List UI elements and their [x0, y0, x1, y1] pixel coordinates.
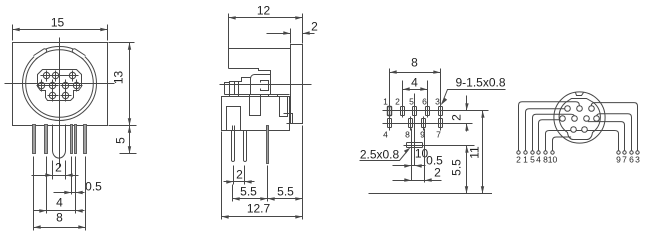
dim 0.5 legs [54, 157, 103, 195]
pad 10 [407, 143, 423, 148]
body top edge [229, 49, 291, 69]
wire terminal 8 and terminal 9 bus [546, 131, 619, 151]
svg-text:1: 1 [383, 97, 388, 107]
svg-text:13: 13 [112, 71, 126, 85]
shield outline back [559, 99, 600, 140]
shield tab U [53, 125, 66, 159]
pin 2 front [50, 71, 62, 82]
outer shell circle [23, 47, 97, 121]
pad 4 [388, 119, 392, 128]
dim 2 pads horiz [393, 129, 442, 183]
pin 9 front [61, 90, 72, 102]
leader 9-1.5x0.8 [442, 76, 506, 105]
svg-text:2: 2 [434, 166, 441, 180]
svg-text:2.5x0.8: 2.5x0.8 [360, 148, 400, 162]
svg-text:3: 3 [435, 97, 440, 107]
wire terminal 5 [533, 114, 575, 150]
pin b6 [584, 116, 590, 122]
key notch top [576, 93, 584, 96]
base slot 2 [280, 97, 288, 117]
svg-text:5: 5 [114, 137, 128, 144]
dim 12.7 [222, 132, 303, 220]
dim 0.5 pads [393, 129, 444, 181]
pad 9 [422, 119, 426, 128]
base box [222, 97, 290, 131]
terminal circle 10 [551, 151, 554, 154]
leg A [232, 131, 235, 162]
solder leg 1 [33, 125, 36, 154]
svg-text:2: 2 [450, 114, 464, 121]
svg-text:12: 12 [257, 4, 271, 18]
wire terminal 10 [553, 137, 572, 151]
svg-text:5.5: 5.5 [240, 185, 257, 199]
svg-text:3: 3 [635, 155, 640, 165]
dim 5.5 5.5 [233, 126, 303, 220]
top row pin line [41, 75, 79, 77]
pin 5 front [48, 80, 59, 92]
dim 5 [114, 126, 137, 154]
dim 2 flange [267, 20, 319, 44]
mounting flange [291, 45, 303, 124]
dim 8 pads [390, 56, 441, 106]
pad 10 line [404, 145, 475, 147]
leader 2.5x0.8 [360, 148, 411, 162]
keyway slot left [34, 48, 48, 59]
pin b1 [565, 106, 571, 112]
pad center ticks row 1 [390, 105, 441, 118]
solder leg 4 [75, 125, 77, 154]
body square outline [13, 43, 108, 126]
row line 1 [383, 110, 489, 112]
nose inner lines [234, 82, 236, 95]
step top profile [229, 69, 271, 95]
pin b4 [560, 116, 566, 122]
svg-text:8: 8 [56, 211, 63, 225]
wire terminal 1 [526, 109, 566, 151]
wire terminal 3 [591, 103, 637, 151]
svg-text:8: 8 [405, 130, 410, 140]
svg-text:2: 2 [516, 155, 521, 165]
pad 8 [409, 119, 413, 128]
svg-text:2: 2 [236, 168, 243, 182]
shield outline [38, 70, 82, 101]
svg-text:1: 1 [523, 155, 528, 165]
dim 8 legs [34, 157, 86, 231]
dim 13 [109, 43, 137, 126]
solder leg 5 [84, 125, 87, 154]
horizontal centerline [5, 83, 115, 85]
wire terminal 6 [597, 114, 632, 151]
svg-text:0.5: 0.5 [85, 180, 102, 194]
shell circle back [554, 92, 605, 143]
terminal circle 8 [544, 151, 547, 154]
pin 4 front [37, 80, 48, 92]
dim 4 legs [34, 157, 85, 214]
pad 1 [388, 107, 392, 116]
svg-text:6: 6 [629, 155, 634, 165]
svg-text:9: 9 [616, 155, 621, 165]
svg-text:12.7: 12.7 [247, 202, 271, 216]
pin 3 front [67, 71, 79, 82]
svg-text:5.5: 5.5 [450, 159, 464, 176]
vertical centerline [59, 38, 61, 168]
dim 5.5 vert [450, 146, 469, 194]
snout tip box [225, 83, 230, 95]
svg-text:8: 8 [411, 56, 418, 70]
keyway slot right [72, 48, 86, 59]
svg-text:11: 11 [468, 146, 482, 159]
pad 7 [439, 119, 443, 128]
pin b8 [571, 127, 577, 133]
svg-text:5: 5 [409, 97, 414, 107]
svg-text:7: 7 [622, 155, 627, 165]
leg B [244, 131, 247, 162]
shell cylinder side [251, 75, 271, 95]
pin 7 front [71, 80, 83, 92]
dim 15 [13, 16, 108, 41]
pad 3 [439, 107, 443, 116]
svg-text:2: 2 [311, 20, 318, 34]
svg-text:15: 15 [51, 16, 65, 30]
wire terminal 4 [539, 120, 562, 151]
pin b9 [582, 127, 588, 133]
svg-text:4: 4 [56, 196, 63, 210]
pin b7 [594, 116, 600, 122]
pin 1 front [41, 71, 52, 82]
base slot 1 [250, 97, 261, 116]
pad 2 [401, 107, 405, 116]
svg-text:4: 4 [383, 130, 388, 140]
centre stub [414, 94, 416, 166]
svg-text:5: 5 [530, 155, 535, 165]
base inner box [227, 107, 241, 131]
pad 5 [413, 107, 417, 116]
solder leg 2 [45, 125, 48, 154]
dim 11 vert [468, 111, 485, 194]
wire terminal 2 [519, 102, 580, 151]
dim 4 pads [403, 76, 428, 106]
wire terminal 7 [588, 122, 625, 151]
terminal circle 6 [630, 151, 633, 154]
terminal circle 2 [517, 151, 520, 154]
pin 8 front [48, 90, 59, 102]
solder leg 3 [71, 125, 73, 154]
svg-text:4: 4 [411, 76, 418, 90]
row line 2 [383, 123, 473, 125]
pin 6 front [61, 80, 72, 92]
svg-text:5.5: 5.5 [277, 185, 294, 199]
shell inner box [261, 81, 269, 91]
svg-text:2: 2 [395, 97, 400, 107]
dim 2 rows [450, 96, 469, 132]
terminal circle 7 [623, 151, 626, 154]
terminal circle 9 [617, 151, 620, 154]
svg-text:6: 6 [422, 97, 427, 107]
terminal circle 1 [524, 151, 527, 154]
pin b5 [572, 116, 578, 122]
bottom ref line [369, 193, 493, 195]
pin b2 [577, 106, 583, 112]
svg-text:2: 2 [55, 161, 62, 175]
base joint verticals [230, 95, 278, 97]
svg-text:4: 4 [536, 155, 541, 165]
svg-text:9-1.5x0.8: 9-1.5x0.8 [455, 76, 505, 90]
flange bottom line [287, 123, 291, 125]
svg-text:10: 10 [548, 155, 558, 165]
dim 12 [229, 4, 303, 49]
dim 2 legs side [224, 166, 255, 185]
leg C gray [267, 126, 269, 164]
leg A shaft [233, 126, 235, 131]
dim 2 legs [32, 161, 79, 180]
flange back bracket [284, 114, 293, 124]
pin b3 [589, 106, 595, 112]
leg C shaft [267, 126, 269, 131]
shoulder line [225, 94, 290, 96]
terminal circle 4 [537, 151, 540, 154]
pad 6 [426, 107, 430, 116]
centerline [220, 84, 312, 86]
terminal circle 3 [636, 151, 639, 154]
staircase step [230, 78, 251, 95]
pad center ticks row 2 [390, 117, 441, 131]
inner shell circle [26, 50, 94, 118]
svg-text:7: 7 [436, 130, 441, 140]
terminal circle 5 [531, 151, 534, 154]
